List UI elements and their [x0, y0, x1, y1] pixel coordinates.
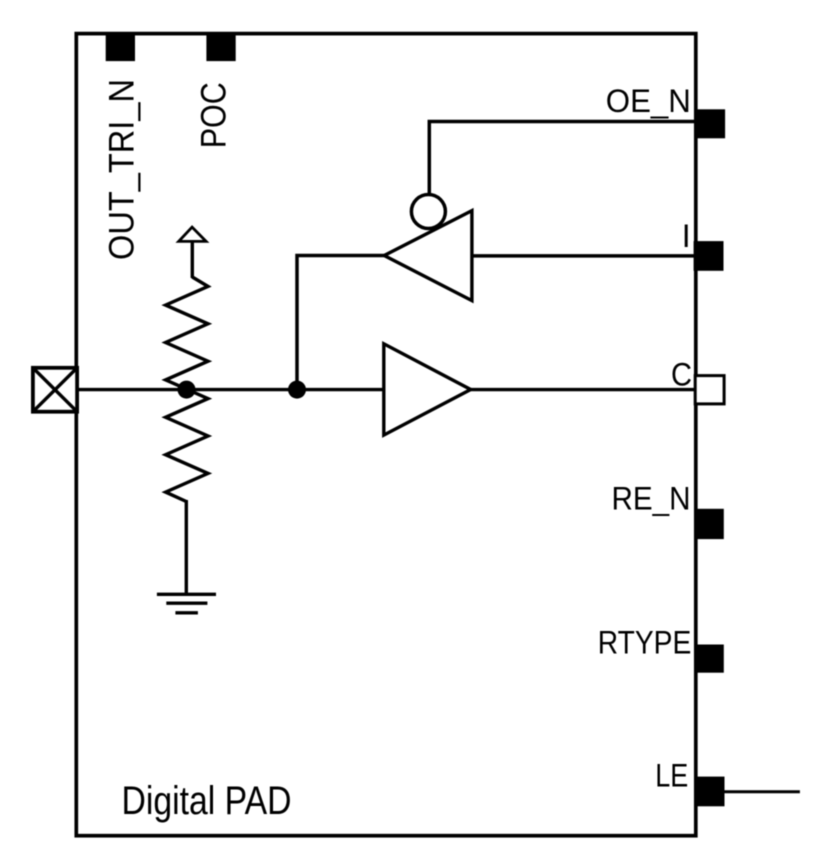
pull resistor R (zigzag)	[166, 277, 208, 502]
svg-text:RE_N: RE_N	[612, 481, 691, 517]
junction dot at branch node	[288, 381, 306, 399]
wire LE pin external	[725, 790, 800, 793]
junction dot at resistor node	[178, 381, 196, 399]
svg-text:Digital PAD: Digital PAD	[122, 779, 292, 823]
svg-text:I: I	[682, 218, 691, 254]
svg-text:OE_N: OE_N	[606, 83, 691, 119]
pin I (right, filled square)	[694, 241, 724, 271]
pin C (right, open square)	[695, 376, 724, 404]
Digital PAD block outline	[76, 34, 696, 836]
pin pad POC (top, filled square)	[206, 32, 235, 61]
svg-text:LE: LE	[655, 757, 688, 793]
svg-text:POC: POC	[195, 82, 234, 148]
wire pad terminal to input buffer	[77, 388, 384, 391]
ground symbol	[157, 593, 216, 596]
pin pad OUT_TRI_N (top, filled square)	[106, 32, 135, 61]
wire OE_N pin to enable bubble	[429, 122, 696, 195]
svg-text:RTYPE: RTYPE	[598, 625, 692, 661]
wire resistor to ground	[185, 500, 188, 594]
wire I pin to tri-state input	[472, 254, 696, 258]
svg-text:OUT_TRI_N: OUT_TRI_N	[102, 79, 141, 260]
supply arrow above pull resistor	[191, 241, 194, 278]
pad terminal (box with X)	[33, 368, 77, 412]
wire input buffer output to C pin	[471, 388, 696, 391]
pin LE (right, filled square)	[695, 777, 725, 807]
pin RE_N (right, filled square)	[695, 509, 724, 539]
tri-state output buffer U1 (points left, drives pad)	[384, 211, 472, 301]
pin RTYPE (right, filled square)	[696, 645, 724, 673]
input buffer U2 (points right, to core)	[384, 344, 471, 435]
svg-text:C: C	[671, 356, 692, 392]
wire node to tri-state output	[297, 256, 384, 390]
enable inversion bubble on U1	[411, 195, 445, 229]
pin OE_N (right, filled square)	[696, 109, 726, 138]
